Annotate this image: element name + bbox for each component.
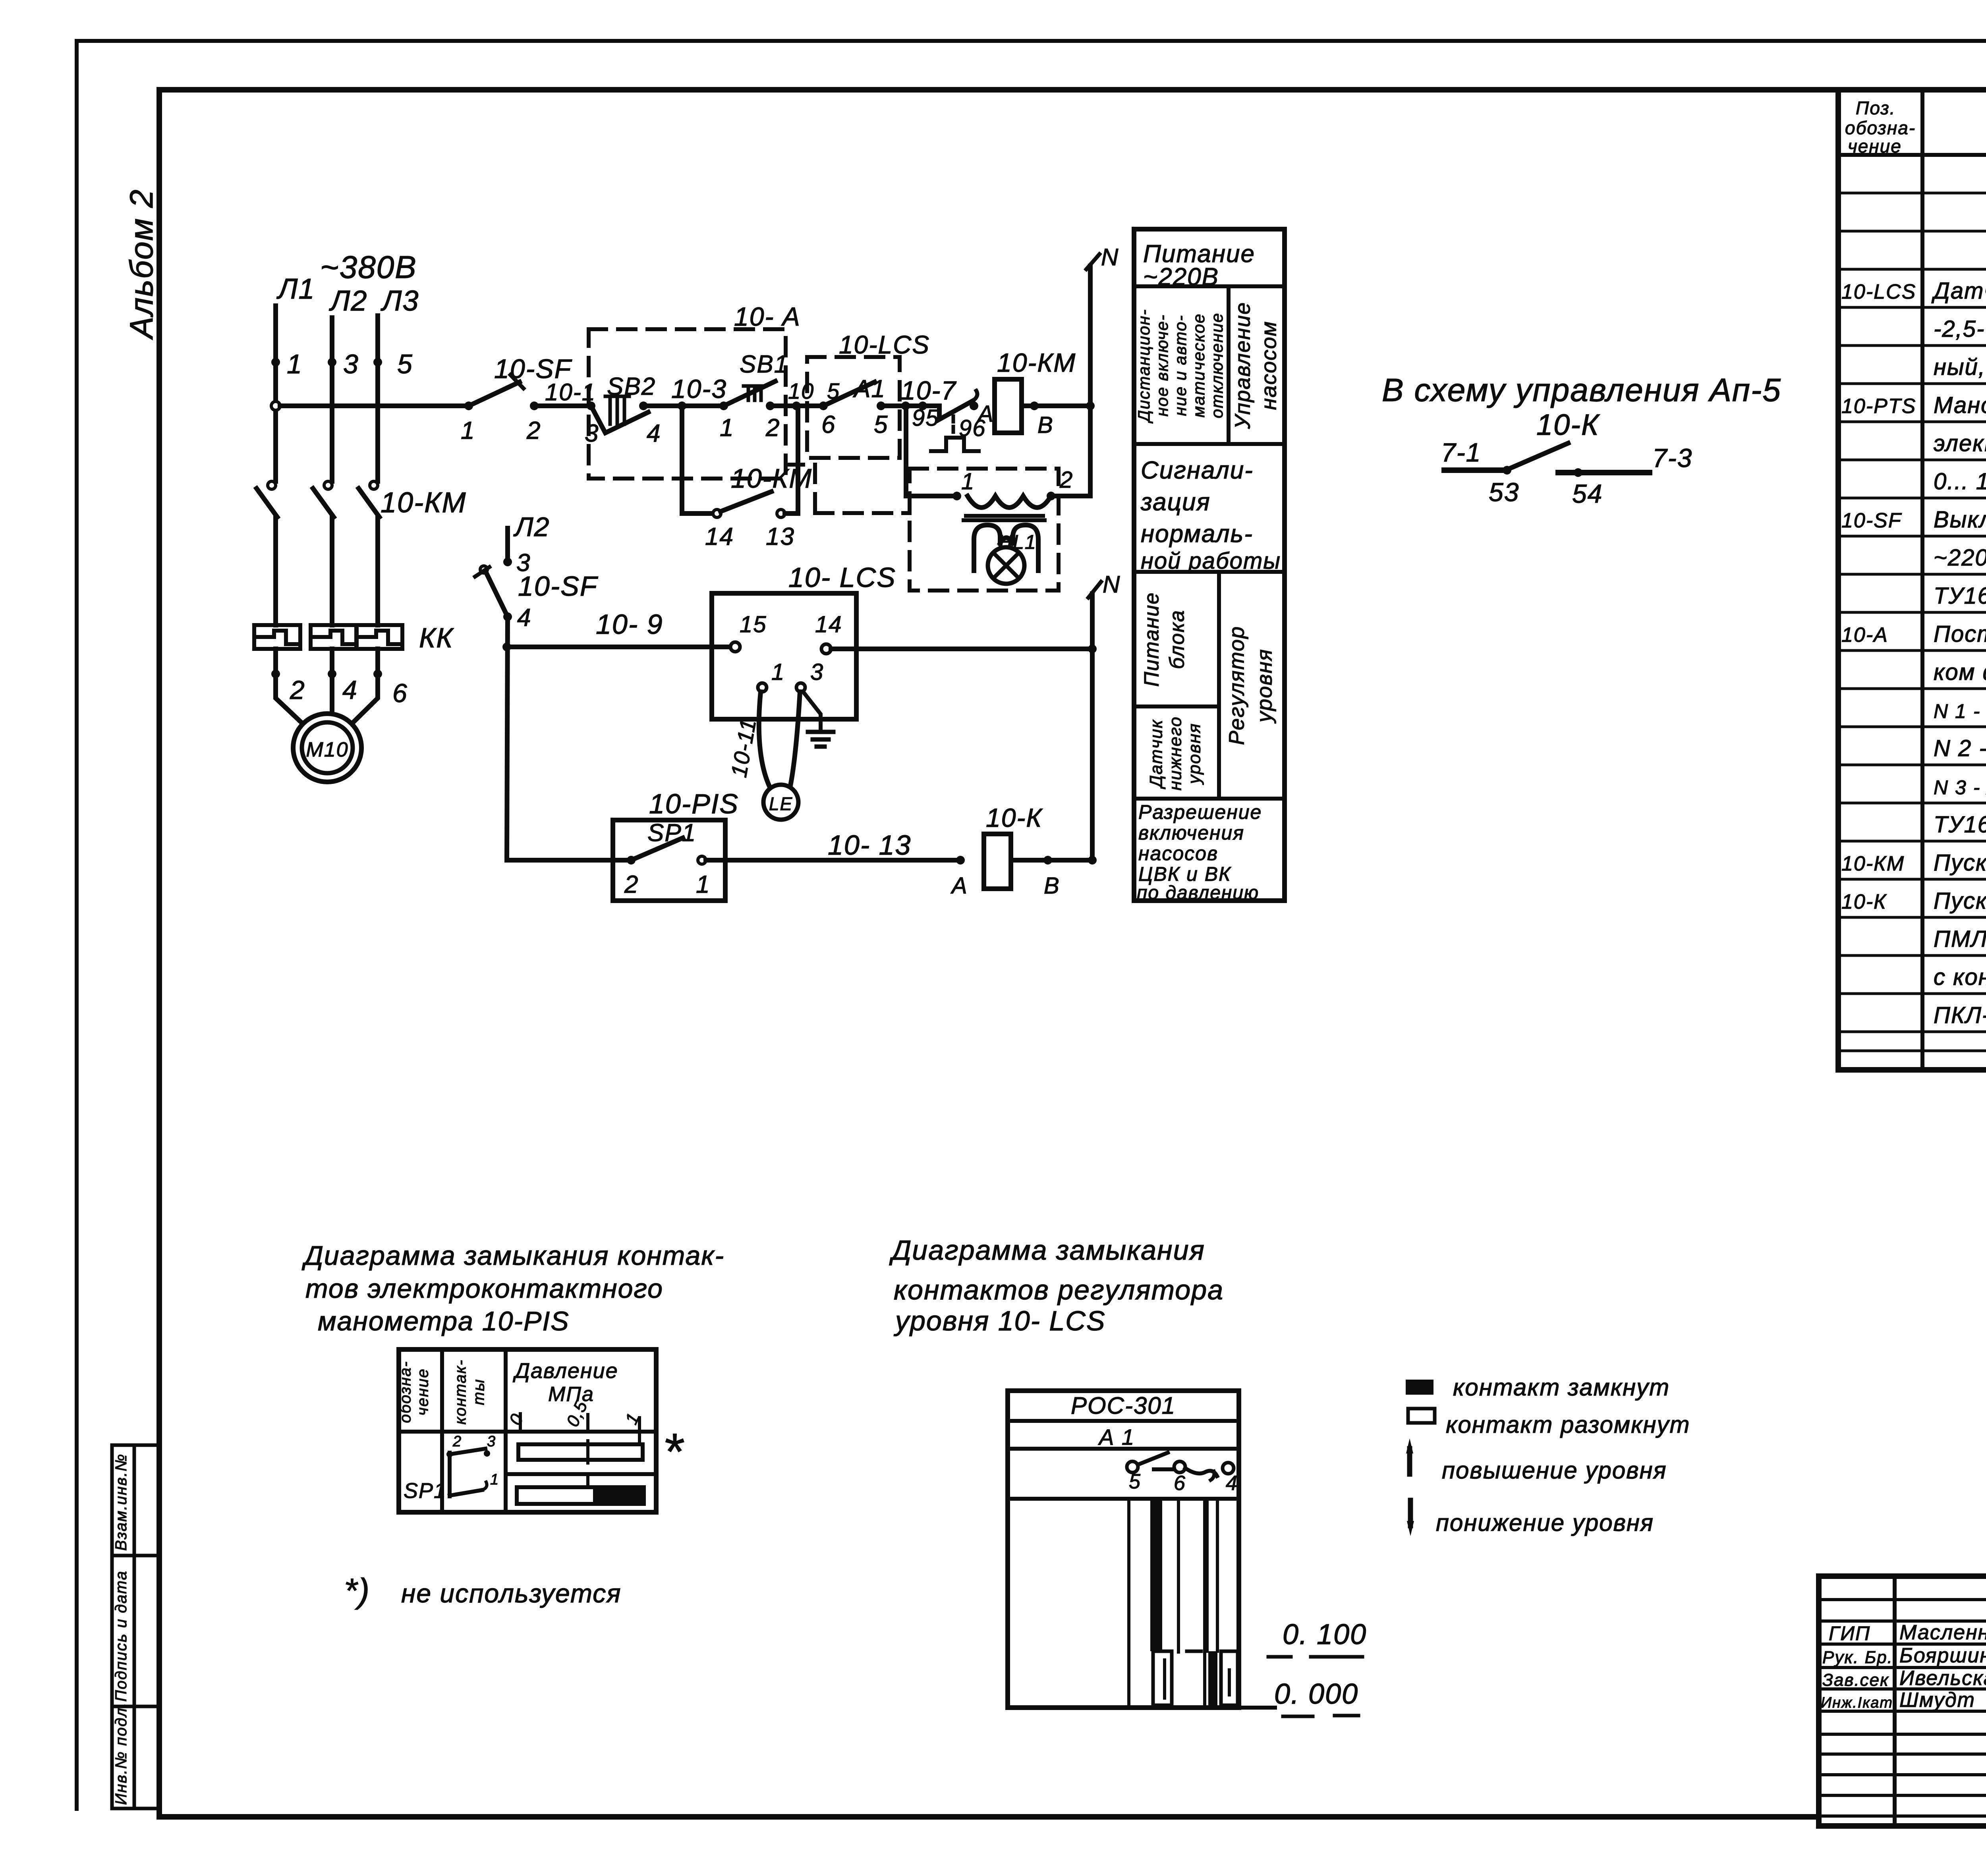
svg-text:включения: включения xyxy=(1138,822,1244,844)
level diagram ROS-301 box xyxy=(1008,1391,1239,1708)
svg-text:N 2 - КЕ 081, исп. 2, К, „Сто: N 2 - КЕ 081, исп. 2, К, „Стоп“ xyxy=(1934,735,1986,761)
svg-text:Диаграмма замыкания: Диаграмма замыкания xyxy=(889,1235,1205,1266)
svg-text:повышение уровня: повышение уровня xyxy=(1442,1457,1667,1484)
svg-text:10- А: 10- А xyxy=(734,302,801,331)
contactor 10-KM main contact pole2 xyxy=(324,481,332,489)
transformer core xyxy=(966,514,1043,518)
svg-text:6: 6 xyxy=(1174,1472,1186,1495)
parts table xyxy=(1838,90,1986,1070)
svg-text:1: 1 xyxy=(287,349,303,379)
svg-text:Пускатель магнитный: Пускатель магнитный xyxy=(1934,850,1986,876)
svg-text:95: 95 xyxy=(912,405,939,431)
svg-text:10-PTS: 10-PTS xyxy=(1841,395,1916,418)
svg-text:Дистанцион-: Дистанцион- xyxy=(1134,309,1153,424)
svg-text:контактов регулятора: контактов регулятора xyxy=(894,1274,1224,1305)
svg-text:N 1 - КЕ 081, исп. 2 , Ч ,„: N 1 - КЕ 081, исп. 2 , Ч ,„ Пуск“ xyxy=(1934,700,1986,722)
svg-text:зация: зация xyxy=(1140,488,1211,516)
svg-text:1: 1 xyxy=(720,414,734,442)
svg-text:6: 6 xyxy=(821,411,836,438)
wire phase L2 xyxy=(330,318,334,481)
svg-text:ТУ16 - 526. 333 - 83: ТУ16 - 526. 333 - 83 xyxy=(1934,812,1986,838)
svg-text:10-КМ: 10-КМ xyxy=(731,463,812,494)
svg-text:2: 2 xyxy=(452,1433,462,1450)
svg-text:ком ф19, ПКУ15 -21. 131-54У2: ком ф19, ПКУ15 -21. 131-54У2 xyxy=(1934,659,1986,685)
svg-text:блока: блока xyxy=(1166,610,1189,669)
svg-text:МПа: МПа xyxy=(548,1383,594,1406)
svg-text:LE: LE xyxy=(769,793,793,814)
svg-text:~380В: ~380В xyxy=(320,249,417,285)
svg-text:1: 1 xyxy=(961,469,975,494)
svg-text:Манометр показывающий: Манометр показывающий xyxy=(1934,392,1986,418)
svg-text:манометра 10-PIS: манометра 10-PIS xyxy=(318,1306,570,1336)
svg-text:контак-: контак- xyxy=(452,1359,469,1424)
svg-text:7-1: 7-1 xyxy=(1441,438,1481,467)
svg-text:уровня: уровня xyxy=(1185,723,1204,785)
transformer primary xyxy=(968,496,1051,508)
svg-text:ГИП: ГИП xyxy=(1829,1622,1870,1644)
coil 10-KM xyxy=(995,379,1022,433)
legend contact open xyxy=(1408,1409,1435,1423)
svg-text:Шмудт: Шмудт xyxy=(1899,1689,1975,1712)
svg-text:Разрешение: Разрешение xyxy=(1138,801,1262,823)
svg-text:Бояршинов: Бояршинов xyxy=(1899,1644,1986,1667)
svg-text:*: * xyxy=(663,1422,684,1480)
wire 10-13 xyxy=(706,858,960,863)
svg-text:нижнего: нижнего xyxy=(1166,716,1185,790)
svg-text:Л2: Л2 xyxy=(329,285,367,317)
junction signal branch xyxy=(901,401,910,410)
svg-text:понижение уровня: понижение уровня xyxy=(1436,1509,1654,1536)
svg-text:N 3 - АЕ123121, 220В, „Норм.: N 3 - АЕ123121, 220В, „Норм. работа“ xyxy=(1934,776,1986,799)
svg-text:0. 100: 0. 100 xyxy=(1283,1619,1367,1650)
svg-text:2: 2 xyxy=(624,871,639,898)
svg-text:с контактной приставкой: с контактной приставкой xyxy=(1934,964,1986,990)
contact 4 xyxy=(1223,1463,1234,1474)
breaker 10-SF xyxy=(464,401,473,410)
thermal relay KK heater2 xyxy=(311,625,357,649)
svg-text:6: 6 xyxy=(392,678,408,708)
svg-text:1: 1 xyxy=(696,871,710,898)
svg-text:10-К: 10-К xyxy=(1841,890,1887,913)
svg-text:Инв.№ подл.: Инв.№ подл. xyxy=(112,1702,130,1805)
svg-text:0... 10кгс/см² , ГОСТ 13717- 8: 0... 10кгс/см² , ГОСТ 13717- 84* xyxy=(1934,469,1986,494)
svg-text:10-7: 10-7 xyxy=(901,376,956,405)
node 3 xyxy=(328,358,336,367)
svg-text:53: 53 xyxy=(1489,477,1519,507)
svg-text:Л3: Л3 xyxy=(381,285,419,317)
node 5 xyxy=(373,358,382,367)
svg-text:насосов: насосов xyxy=(1138,842,1218,865)
thermal contact 95-96 xyxy=(939,401,972,419)
dashed link to lamp box xyxy=(786,463,815,467)
svg-text:10-КМ: 10-КМ xyxy=(1841,852,1905,875)
svg-text:4: 4 xyxy=(647,420,661,447)
wire 10-11 to LE xyxy=(759,692,770,787)
svg-text:10-LCS: 10-LCS xyxy=(1841,280,1916,303)
svg-text:контакт разомкнут: контакт разомкнут xyxy=(1446,1411,1690,1438)
legend level rise arrow xyxy=(1407,1449,1412,1474)
svg-text:10-3: 10-3 xyxy=(671,374,727,403)
svg-text:Питание: Питание xyxy=(1140,592,1163,687)
svg-text:1: 1 xyxy=(771,659,785,685)
svg-text:1: 1 xyxy=(490,1471,499,1488)
svg-text:Альбом 2: Альбом 2 xyxy=(124,189,160,340)
svg-text:Диаграмма замыкания контак-: Диаграмма замыкания контак- xyxy=(301,1241,724,1271)
svg-text:по давлению: по давлению xyxy=(1137,882,1259,903)
svg-text:Поз.: Поз. xyxy=(1856,98,1896,118)
svg-text:2: 2 xyxy=(290,675,305,704)
dashed enclosure 10-A xyxy=(589,329,786,479)
svg-text:обозна-: обозна- xyxy=(397,1361,414,1423)
wire 3 to LE xyxy=(790,692,800,786)
svg-text:~220В: ~220В xyxy=(1143,263,1219,291)
breaker 10-SF lower xyxy=(486,573,508,617)
svg-text:В: В xyxy=(1037,412,1054,438)
svg-text:10-LCS: 10-LCS xyxy=(839,330,930,359)
svg-text:10-КМ: 10-КМ xyxy=(381,487,466,519)
svg-text:5: 5 xyxy=(874,411,888,438)
svg-text:ПМЛ - 111002, ТУ16- 644.00 1-: ПМЛ - 111002, ТУ16- 644.00 1- 83 xyxy=(1934,926,1986,952)
svg-text:10-К: 10-К xyxy=(1536,408,1600,441)
svg-text:3: 3 xyxy=(810,659,824,685)
svg-text:10-К: 10-К xyxy=(986,803,1043,832)
node 6 xyxy=(373,670,382,678)
contact 3 xyxy=(796,683,805,692)
svg-text:Взам.инв.№: Взам.инв.№ xyxy=(112,1453,130,1551)
svg-text:3: 3 xyxy=(487,1433,496,1450)
svg-text:ное включе-: ное включе- xyxy=(1153,314,1171,417)
svg-text:54: 54 xyxy=(1572,479,1603,508)
svg-text:Л1: Л1 xyxy=(276,273,315,305)
contact 1 xyxy=(758,683,767,692)
svg-text:уровня: уровня xyxy=(1252,648,1276,724)
wire to motor L1 xyxy=(273,649,278,674)
svg-text:2: 2 xyxy=(526,417,541,444)
wire lower rail xyxy=(507,858,631,863)
state bars xyxy=(1127,1499,1130,1706)
svg-text:N: N xyxy=(1101,244,1119,270)
svg-text:ТУ16 - 522.139 -78: ТУ16 - 522.139 -78 xyxy=(1934,583,1986,609)
svg-text:14: 14 xyxy=(815,612,842,637)
svg-text:ЦВК и ВК: ЦВК и ВК xyxy=(1138,863,1231,885)
svg-text:ние и авто-: ние и авто- xyxy=(1171,315,1190,416)
level controller block 10-LCS xyxy=(712,593,856,719)
svg-text:обозна-: обозна- xyxy=(1845,118,1916,138)
wire to motor L3 xyxy=(375,649,380,674)
svg-text:Сигнали-: Сигнали- xyxy=(1141,457,1254,484)
svg-text:N: N xyxy=(1103,571,1121,598)
wire phase L1 xyxy=(273,306,278,481)
legend level fall arrow xyxy=(1408,1500,1413,1526)
svg-text:10-А: 10-А xyxy=(1841,623,1888,647)
svg-text:М10: М10 xyxy=(306,738,348,761)
svg-text:*): *) xyxy=(344,1572,370,1610)
svg-text:не используется: не используется xyxy=(401,1579,622,1608)
node 1 xyxy=(271,358,280,367)
self-hold aux contact 10-KM xyxy=(680,406,684,513)
svg-text:РОС-301: РОС-301 xyxy=(1071,1392,1176,1419)
wire 14 to N xyxy=(831,647,1092,651)
svg-text:15: 15 xyxy=(740,612,767,637)
wire control feed from L1 xyxy=(271,401,280,410)
svg-text:Ивельская: Ивельская xyxy=(1899,1667,1986,1690)
svg-text:Датчик - реле уровня РОС-301-: Датчик - реле уровня РОС-301- 1- xyxy=(1931,278,1986,304)
node 2 xyxy=(271,670,280,678)
svg-text:чение: чение xyxy=(1848,136,1902,156)
svg-text:10- LCS: 10- LCS xyxy=(788,562,896,593)
svg-text:электроконтактный ЭКМ-1В,: электроконтактный ЭКМ-1В, xyxy=(1934,430,1986,456)
svg-text:0. 000: 0. 000 xyxy=(1274,1678,1358,1710)
dashed box 10-LCS upper xyxy=(807,357,900,458)
manometer diagram table xyxy=(399,1349,656,1512)
svg-text:Датчик: Датчик xyxy=(1147,719,1166,789)
pushbutton SB1 start xyxy=(719,401,728,410)
svg-text:Управление: Управление xyxy=(1231,302,1254,429)
svg-text:отключение: отключение xyxy=(1207,313,1226,418)
wire 10-5 xyxy=(770,403,823,408)
svg-text:Подпись и дата: Подпись и дата xyxy=(112,1570,130,1702)
thermal relay KK heater1 xyxy=(254,625,300,649)
svg-text:Пост управления с сальни-: Пост управления с сальни- xyxy=(1934,621,1986,647)
svg-text:4: 4 xyxy=(517,604,531,631)
contactor 10-KM main contact pole1 xyxy=(268,481,276,489)
wire 10-1 xyxy=(530,401,539,410)
svg-text:10- 13: 10- 13 xyxy=(828,830,911,861)
lamp LE xyxy=(763,785,798,820)
wire to motor L2 xyxy=(330,649,334,674)
ground xyxy=(803,692,821,731)
node N top xyxy=(1086,401,1095,410)
pressure bar row2 xyxy=(517,1487,644,1504)
wire phase L3 xyxy=(375,316,380,481)
svg-text:Выключатель АП50Б- 2МУ2: Выключатель АП50Б- 2МУ2 xyxy=(1934,507,1986,533)
svg-text:SP1: SP1 xyxy=(404,1479,446,1503)
svg-text:В: В xyxy=(1044,873,1060,899)
wire 10-3 xyxy=(643,403,724,408)
pushbutton SB2 stop xyxy=(587,401,595,410)
motor M10 xyxy=(293,714,361,782)
svg-text:10: 10 xyxy=(788,378,814,403)
svg-text:чение: чение xyxy=(414,1368,432,1415)
level relay contact A1 xyxy=(819,401,828,410)
svg-text:Масленников: Масленников xyxy=(1899,1621,1986,1644)
svg-text:Зав.сек: Зав.сек xyxy=(1822,1670,1889,1690)
svg-text:А: А xyxy=(950,873,968,899)
contactor 10-KM main contact pole3 xyxy=(370,481,378,489)
signal transformer branch xyxy=(904,406,908,496)
contact 5 xyxy=(1127,1461,1138,1473)
svg-text:10-КМ: 10-КМ xyxy=(997,348,1076,377)
junction self-hold left xyxy=(678,401,686,410)
wire motor leads xyxy=(276,674,305,726)
lamp HL1 xyxy=(988,547,1024,584)
svg-text:5: 5 xyxy=(1129,1470,1141,1493)
lamp HL1 secondary shape xyxy=(974,525,1000,571)
svg-text:~220В , 1,6 ×12: ~220В , 1,6 ×12 xyxy=(1934,545,1986,571)
contact SP1 xyxy=(627,856,636,865)
wire 10-9 xyxy=(507,645,731,649)
svg-text:1: 1 xyxy=(461,417,475,444)
svg-text:А: А xyxy=(977,401,994,427)
svg-text:Л2: Л2 xyxy=(513,512,550,542)
svg-text:10- 9: 10- 9 xyxy=(596,609,663,640)
thermal relay KK heater3 xyxy=(356,625,402,649)
dashed enclosure lamp xyxy=(910,469,1059,591)
svg-text:тов электроконтактного: тов электроконтактного xyxy=(305,1274,663,1304)
svg-text:ной работы: ной работы xyxy=(1141,548,1281,574)
node N lower xyxy=(1090,594,1095,860)
svg-text:2: 2 xyxy=(765,414,780,442)
svg-text:14: 14 xyxy=(705,523,734,550)
svg-text:10-SF: 10-SF xyxy=(518,571,599,602)
pressure switch block 10-PIS xyxy=(613,820,725,901)
svg-text:уровня 10- LCS: уровня 10- LCS xyxy=(894,1305,1106,1336)
pressure bar row1 open xyxy=(518,1444,643,1460)
title block xyxy=(1819,1576,1986,1826)
junction 10-9 xyxy=(502,643,511,651)
svg-text:Рук. Бр.: Рук. Бр. xyxy=(1822,1648,1893,1667)
svg-text:SB1: SB1 xyxy=(740,351,788,378)
svg-text:7-3: 7-3 xyxy=(1652,443,1692,473)
svg-text:насосом: насосом xyxy=(1257,321,1281,410)
svg-text:А1: А1 xyxy=(852,375,886,403)
svg-text:матическое: матическое xyxy=(1189,313,1208,418)
svg-text:10-SF: 10-SF xyxy=(1841,509,1902,532)
junction self-hold right xyxy=(792,401,801,410)
wire 10-7 xyxy=(881,403,939,408)
left stamp strip xyxy=(110,1445,114,1808)
svg-text:нормаль-: нормаль- xyxy=(1141,520,1253,548)
svg-text:4: 4 xyxy=(342,675,358,704)
svg-text:4: 4 xyxy=(1226,1472,1238,1495)
function description column xyxy=(1134,229,1285,901)
svg-text:3: 3 xyxy=(343,349,359,379)
coil 10-K xyxy=(956,856,965,865)
svg-text:В схему управления Ап-5: В схему управления Ап-5 xyxy=(1382,372,1781,408)
svg-text:Инж.Iкат: Инж.Iкат xyxy=(1821,1695,1893,1711)
svg-text:13: 13 xyxy=(766,523,795,550)
svg-text:-2,5- 200, монтаж вертикаль-: -2,5- 200, монтаж вертикаль- xyxy=(1934,316,1986,342)
svg-text:2: 2 xyxy=(1059,467,1073,493)
svg-text:ПКЛ-2204 ТУ16 -523. 554- 78: ПКЛ-2204 ТУ16 -523. 554- 78 xyxy=(1934,1002,1986,1028)
svg-text:Регулятор: Регулятор xyxy=(1225,626,1248,745)
svg-text:контакт замкнут: контакт замкнут xyxy=(1453,1374,1670,1401)
node 4 xyxy=(328,670,336,678)
svg-text:А 1: А 1 xyxy=(1098,1424,1135,1449)
svg-text:КК: КК xyxy=(419,622,454,653)
svg-text:10-PIS: 10-PIS xyxy=(649,788,739,819)
legend contact closed xyxy=(1406,1380,1433,1395)
svg-text:ты: ты xyxy=(470,1379,488,1405)
svg-text:5: 5 xyxy=(397,349,413,379)
svg-text:ный, ТУ25- 2408. 0009-88: ный, ТУ25- 2408. 0009-88 xyxy=(1934,354,1986,380)
contact 6 xyxy=(1174,1461,1185,1473)
svg-text:Давление: Давление xyxy=(513,1359,618,1383)
contact 10-K to AP-5 xyxy=(1444,467,1507,473)
svg-text:Пускатель магнитный: Пускатель магнитный xyxy=(1934,888,1986,914)
